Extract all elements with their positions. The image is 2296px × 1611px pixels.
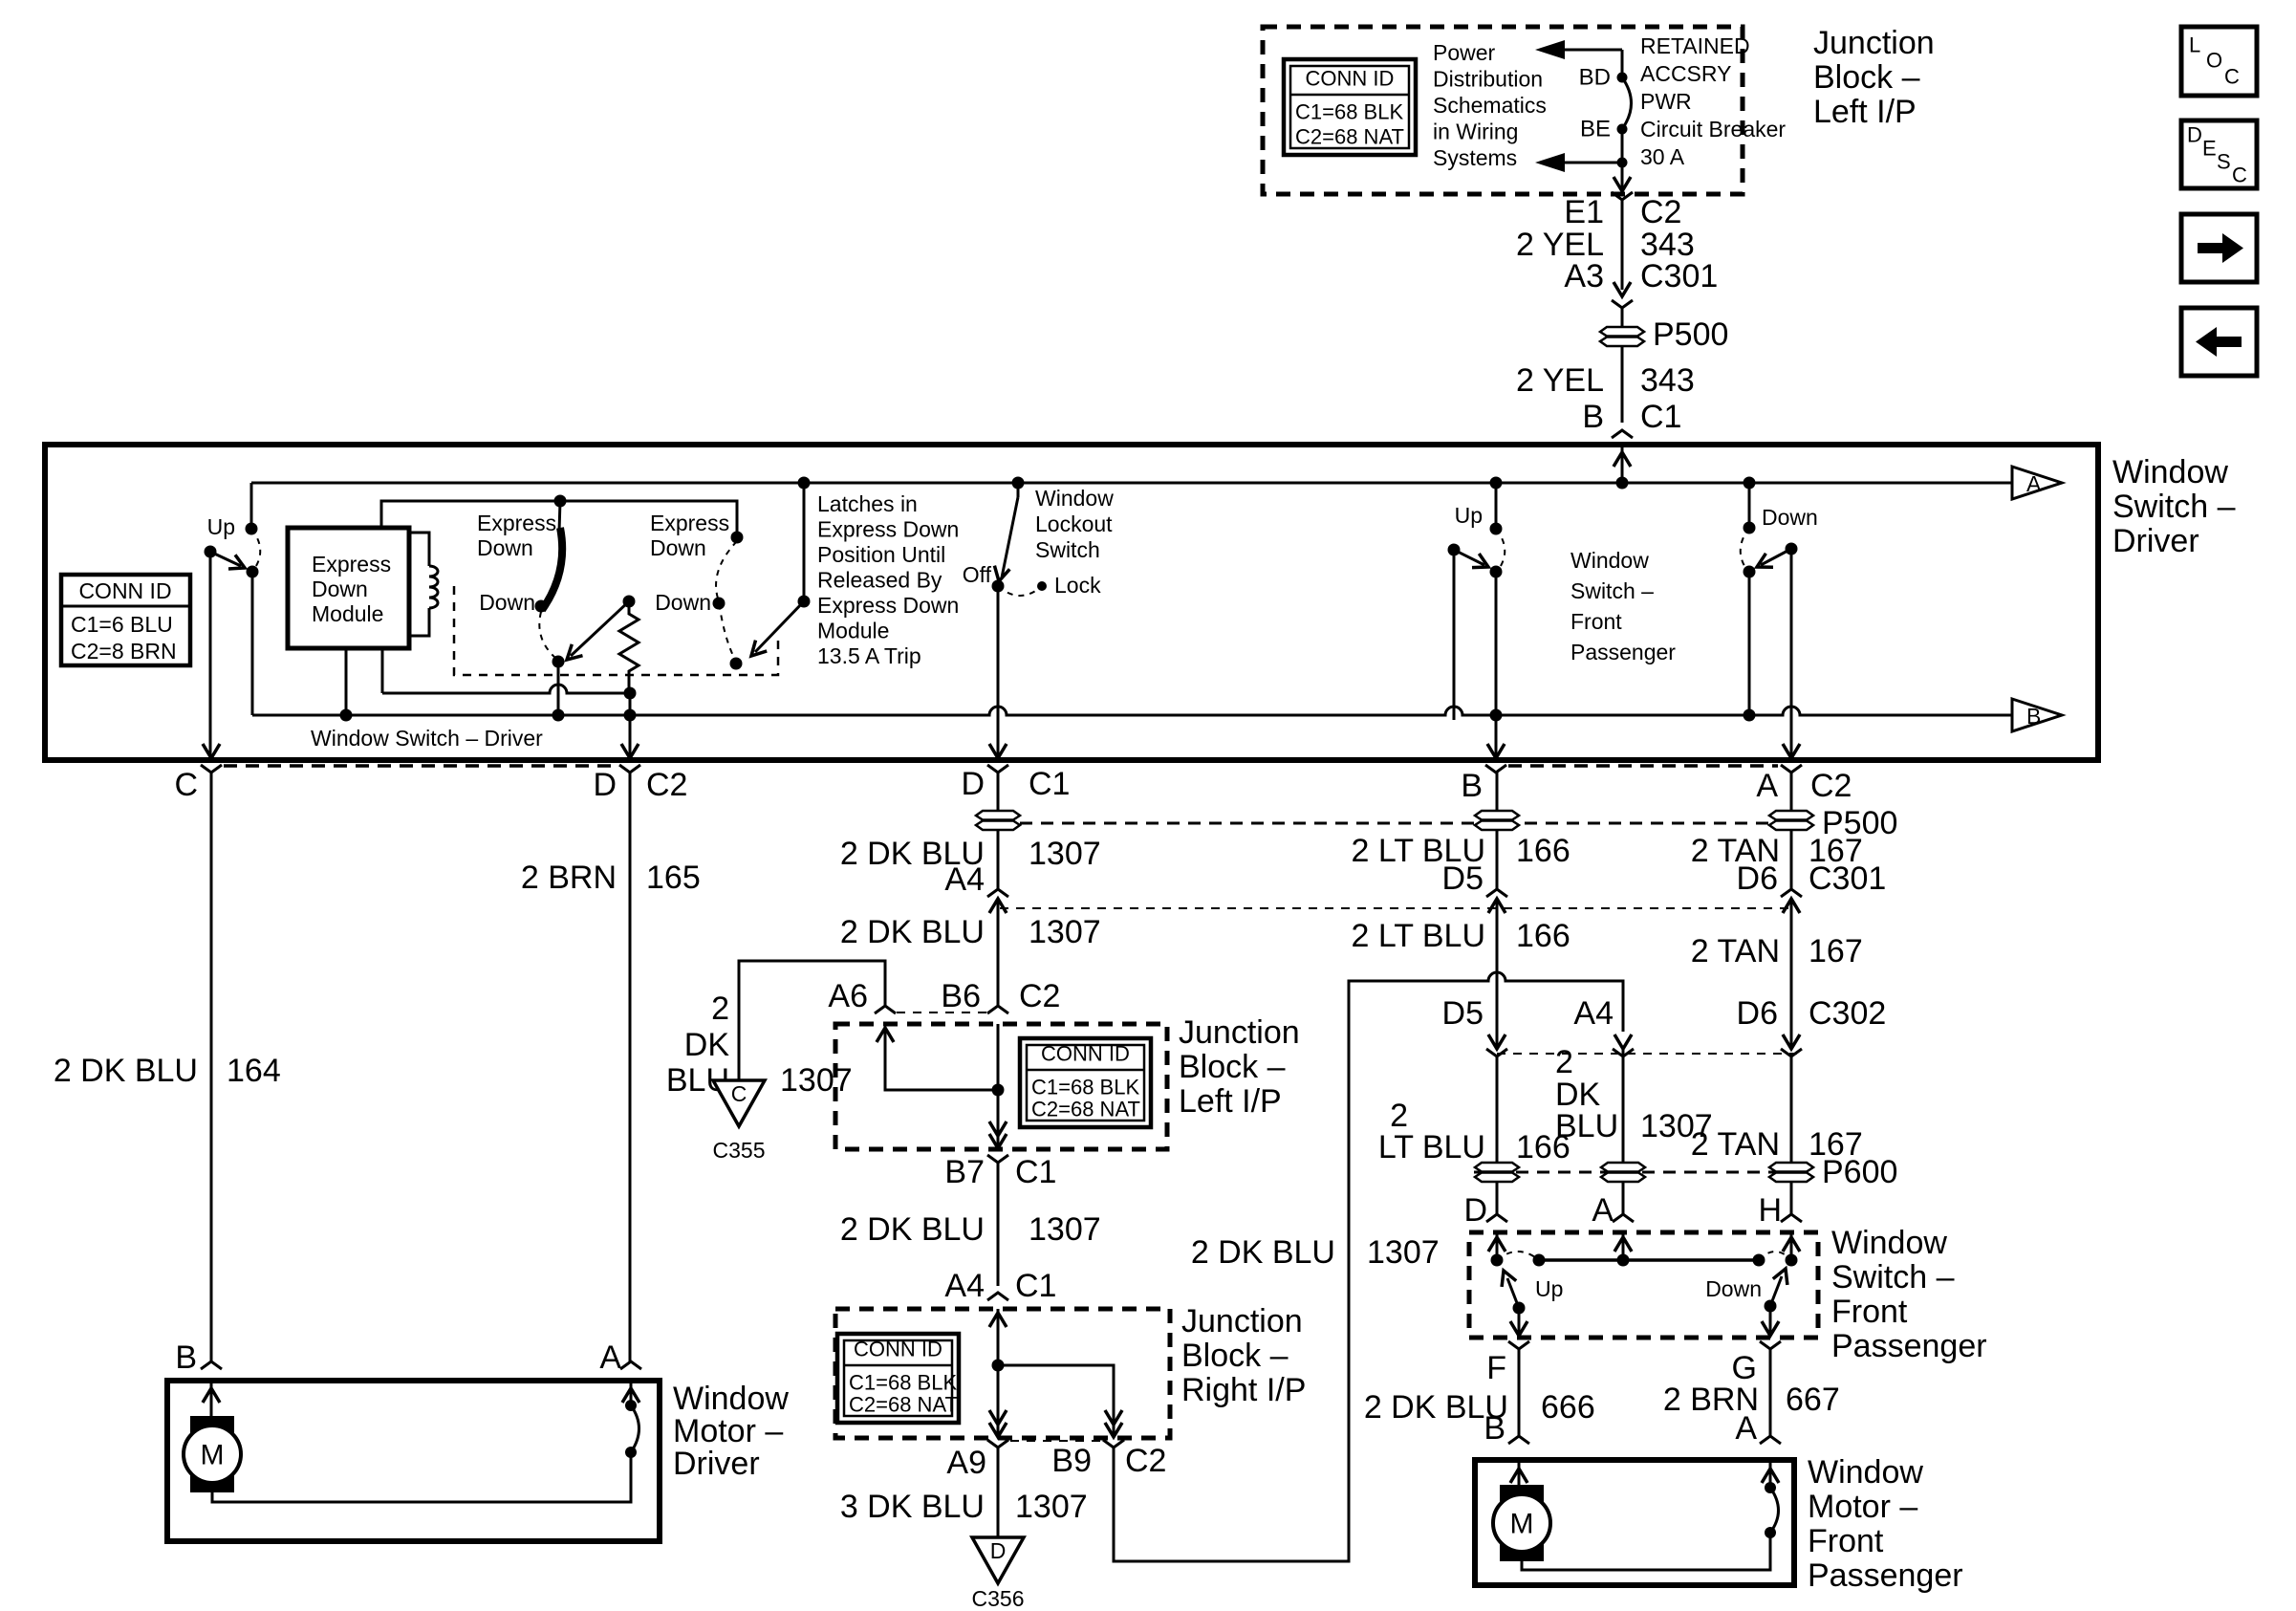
- wire to resistor bottom (with hop): [382, 685, 630, 693]
- svg-text:2 DK BLU: 2 DK BLU: [1191, 1234, 1335, 1271]
- connector P500 (circuit 167): [1769, 811, 1813, 830]
- svg-text:C301: C301: [1809, 860, 1886, 897]
- svg-text:A4: A4: [1573, 995, 1614, 1032]
- svg-text:Released By: Released By: [817, 568, 942, 593]
- svg-text:2: 2: [1555, 1044, 1573, 1080]
- node junction at 30A output: [1617, 158, 1628, 168]
- wire inside J3 (main): [997, 1309, 1000, 1434]
- svg-text:D5: D5: [1442, 995, 1484, 1032]
- svg-text:Junction: Junction: [1813, 25, 1935, 61]
- svg-text:CONN ID: CONN ID: [1041, 1042, 1130, 1066]
- component Express Down Module: [288, 528, 409, 648]
- resistor R1: [623, 596, 636, 608]
- wire latch feed from bus A to SW3 pivot: [803, 483, 806, 601]
- wire 166 to C301: [1496, 831, 1499, 889]
- wire 1307 J2 to J3: [997, 1163, 1000, 1286]
- svg-text:C301: C301: [1640, 258, 1718, 294]
- node bus dots: [798, 477, 811, 490]
- svg-text:C: C: [2232, 163, 2247, 187]
- svg-text:2 TAN: 2 TAN: [1691, 1126, 1780, 1163]
- svg-text:B: B: [1484, 1410, 1505, 1447]
- svg-text:Switch –: Switch –: [1831, 1259, 1955, 1295]
- svg-text:Express Down: Express Down: [817, 593, 959, 618]
- motor position contact (driver): [625, 1447, 637, 1458]
- svg-text:D: D: [1463, 1192, 1487, 1229]
- svg-text:A: A: [2026, 471, 2042, 496]
- junction block J2 - Left I/P (dashed box): [835, 1024, 1167, 1149]
- nav icon LOC: [2181, 27, 2257, 96]
- CONN ID table (J3): [837, 1334, 959, 1423]
- wire motor B entry (passenger): [1518, 1460, 1521, 1485]
- svg-text:B: B: [2026, 704, 2041, 729]
- svg-text:1307: 1307: [780, 1062, 853, 1099]
- wire 164 pin C to motor B: [210, 773, 213, 1361]
- svg-text:666: 666: [1541, 1389, 1595, 1426]
- wire SW6 contact to bus B: [1748, 572, 1751, 715]
- svg-text:2 YEL: 2 YEL: [1516, 362, 1604, 399]
- svg-text:Module: Module: [817, 619, 889, 643]
- svg-text:E1: E1: [1564, 194, 1604, 230]
- connector C301 pin A3 (arrow and chevron): [1614, 282, 1631, 296]
- wire 167 to C301: [1790, 831, 1793, 889]
- svg-text:C: C: [174, 767, 198, 803]
- svg-text:Front: Front: [1570, 609, 1622, 634]
- connector C355 (triangle): [713, 1080, 765, 1126]
- svg-text:Up: Up: [1535, 1276, 1563, 1301]
- contact Lock: [1037, 581, 1047, 591]
- svg-text:Window Switch – Driver: Window Switch – Driver: [311, 726, 543, 751]
- svg-text:Off: Off: [963, 562, 992, 587]
- wire 165 pin D to motor A: [629, 773, 632, 1361]
- svg-text:C1=68 BLK: C1=68 BLK: [849, 1371, 957, 1395]
- CONN ID table (J2): [1020, 1038, 1151, 1127]
- svg-text:A: A: [1756, 768, 1778, 804]
- pin A9 (below J3): [987, 1440, 1008, 1448]
- svg-text:P600: P600: [1822, 1154, 1897, 1190]
- wire 166 to P600: [1496, 1056, 1499, 1162]
- wire inside J2 (A6 leg): [885, 1028, 998, 1090]
- relay coil L1: [429, 566, 438, 608]
- wire SW1 lower contact to bus B: [251, 572, 254, 715]
- arm SW3: [755, 601, 804, 652]
- wire B C1 entry into bus: [1621, 447, 1624, 483]
- svg-text:2: 2: [711, 991, 729, 1027]
- latched arm (thick arc): [542, 528, 562, 610]
- branch wire 1307 to C355: [739, 961, 885, 1080]
- svg-text:S: S: [2217, 150, 2231, 174]
- nav icon forward arrow: [2181, 214, 2257, 282]
- wire pin H inside: [1790, 1234, 1793, 1260]
- wire module bottom to resistor line: [381, 648, 384, 693]
- wire 2 YEL 343 (lower): [1621, 347, 1624, 423]
- pin C (driver switch): [201, 765, 222, 773]
- wire SW6 pivot to pin A C2 (hops bus B): [1790, 549, 1793, 755]
- wire 666 to motor: [1518, 1349, 1521, 1436]
- svg-text:A4: A4: [944, 861, 985, 898]
- svg-text:LT BLU: LT BLU: [1378, 1129, 1485, 1165]
- arrow to power distribution bottom: [1535, 153, 1565, 172]
- svg-text:1307: 1307: [1367, 1234, 1440, 1271]
- svg-text:Down: Down: [479, 590, 535, 615]
- svg-text:166: 166: [1516, 833, 1570, 869]
- wire motor loop (driver): [212, 1452, 631, 1502]
- svg-text:P500: P500: [1653, 316, 1728, 353]
- svg-text:Window: Window: [1035, 486, 1114, 511]
- svg-text:Window: Window: [1831, 1225, 1947, 1261]
- pin B9 C2 (below J3): [1103, 1440, 1124, 1448]
- junction block J3 - Right I/P (dashed box): [835, 1309, 1170, 1438]
- svg-text:2 DK BLU: 2 DK BLU: [840, 1211, 985, 1248]
- svg-text:Circuit Breaker: Circuit Breaker: [1640, 117, 1786, 142]
- terminal A (output triangle): [2012, 467, 2062, 499]
- svg-text:Down: Down: [1705, 1276, 1762, 1301]
- svg-text:E: E: [2202, 137, 2217, 161]
- svg-text:Module: Module: [312, 601, 383, 626]
- swing arc lockout: [998, 586, 1042, 596]
- svg-text:Passenger: Passenger: [1570, 640, 1676, 664]
- svg-text:C2: C2: [1810, 768, 1852, 804]
- svg-text:165: 165: [646, 860, 701, 896]
- svg-text:A: A: [1592, 1192, 1614, 1229]
- svg-text:Down: Down: [477, 535, 533, 560]
- svg-text:A6: A6: [828, 978, 868, 1014]
- svg-text:Window: Window: [1808, 1454, 1923, 1491]
- svg-text:Window: Window: [673, 1381, 789, 1417]
- pin G (below passenger switch): [1760, 1341, 1781, 1349]
- svg-text:Junction: Junction: [1179, 1014, 1300, 1051]
- svg-text:Power: Power: [1433, 40, 1496, 65]
- pin B (passenger up): [1485, 765, 1506, 773]
- connector C1 pin B (chevron into switch): [1612, 430, 1633, 438]
- mechanical linkage (dashed): [454, 586, 778, 675]
- connector C356 (triangle): [972, 1537, 1024, 1583]
- bus A (top feed bus): [251, 482, 2012, 485]
- svg-text:D: D: [990, 1538, 1007, 1563]
- dashed link A6-B6: [897, 1012, 986, 1013]
- wire 1307 to C301: [997, 831, 1000, 889]
- svg-text:M: M: [1510, 1509, 1534, 1540]
- svg-text:1307: 1307: [1029, 1211, 1101, 1248]
- svg-text:Front: Front: [1831, 1294, 1908, 1330]
- svg-text:Block –: Block –: [1813, 59, 1920, 96]
- pin F (below passenger switch): [1508, 1341, 1529, 1349]
- wire H into passenger switch: [1790, 1183, 1793, 1214]
- wire 167 to P600: [1790, 1056, 1793, 1162]
- svg-text:1307: 1307: [1015, 1489, 1088, 1525]
- wire motor A entry: [630, 1381, 633, 1405]
- svg-text:F: F: [1486, 1350, 1506, 1386]
- svg-text:A: A: [1735, 1410, 1757, 1447]
- motor M2 front passenger: [1500, 1485, 1544, 1513]
- svg-text:C2=68 NAT: C2=68 NAT: [1295, 125, 1404, 149]
- wire 166 pin B to P500: [1496, 773, 1499, 810]
- svg-text:H: H: [1758, 1192, 1782, 1229]
- svg-text:L: L: [2189, 33, 2200, 57]
- svg-text:2 DK BLU: 2 DK BLU: [840, 914, 985, 950]
- svg-text:C2: C2: [1019, 978, 1060, 1014]
- svg-text:Switch –: Switch –: [2112, 489, 2236, 525]
- svg-text:Block –: Block –: [1179, 1049, 1286, 1085]
- svg-text:C2=68 NAT: C2=68 NAT: [1031, 1098, 1140, 1121]
- svg-text:167: 167: [1809, 933, 1863, 969]
- svg-text:164: 164: [227, 1053, 281, 1089]
- wire to power distribution (bottom): [1565, 162, 1622, 164]
- connector link dashed C-D: [224, 764, 617, 768]
- CONN ID table (driver switch): [61, 575, 190, 665]
- svg-text:C1: C1: [1029, 766, 1070, 802]
- svg-text:DK: DK: [684, 1027, 730, 1063]
- svg-text:C1=68 BLK: C1=68 BLK: [1295, 100, 1403, 124]
- svg-text:C356: C356: [972, 1586, 1025, 1611]
- svg-text:B: B: [1582, 399, 1604, 435]
- svg-text:Driver: Driver: [2112, 523, 2199, 559]
- svg-text:Switch: Switch: [1035, 537, 1100, 562]
- pin B6 C2 (junction block): [987, 1006, 1008, 1013]
- wire 1307 long run B9 to C302 A4: [1114, 972, 1623, 1561]
- wire 2 YEL 343 (upper): [1621, 200, 1624, 290]
- wire SW5 pivot stub (hops bus B): [1453, 550, 1456, 720]
- wire 667 to motor: [1769, 1349, 1772, 1436]
- motor position contact (passenger): [1765, 1527, 1776, 1538]
- svg-text:Switch –: Switch –: [1570, 578, 1654, 603]
- wire arm to pin G: [1769, 1306, 1772, 1335]
- motor M1 driver: [190, 1416, 234, 1445]
- svg-text:Distribution: Distribution: [1433, 67, 1543, 92]
- svg-text:B6: B6: [941, 978, 981, 1014]
- svg-text:C355: C355: [713, 1138, 766, 1163]
- bus B (bottom bus) with hops: [252, 707, 2012, 715]
- component box Window Switch - Driver: [45, 445, 2098, 760]
- svg-text:Express Down: Express Down: [817, 517, 959, 542]
- svg-text:Down: Down: [1762, 505, 1818, 530]
- svg-text:C1: C1: [1015, 1154, 1056, 1190]
- wire into P500: [1621, 308, 1624, 326]
- svg-text:3 DK BLU: 3 DK BLU: [840, 1489, 985, 1525]
- svg-text:B: B: [175, 1339, 197, 1376]
- wire SW1 pivot to pin C: [209, 552, 212, 755]
- arrow to power distribution top: [1535, 40, 1565, 59]
- arrow from resistor to SW2 contact: [571, 601, 629, 656]
- svg-text:BLU: BLU: [1555, 1108, 1618, 1144]
- svg-text:RETAINED: RETAINED: [1640, 33, 1750, 58]
- nav icon back arrow: [2181, 308, 2257, 376]
- svg-text:2 BRN: 2 BRN: [521, 860, 617, 896]
- svg-text:Front: Front: [1808, 1523, 1884, 1559]
- nav icon DESC: [2181, 120, 2257, 188]
- svg-text:CONN ID: CONN ID: [854, 1338, 942, 1361]
- swing arc SW2: [539, 612, 555, 658]
- svg-text:Block –: Block –: [1181, 1338, 1289, 1374]
- swing arc SW3: [716, 541, 737, 658]
- dashed connector row P600: [1474, 1171, 1809, 1174]
- svg-text:D: D: [961, 766, 985, 802]
- svg-text:166: 166: [1516, 918, 1570, 954]
- svg-text:Lock: Lock: [1054, 573, 1101, 598]
- wire module bottom pin to bus B: [345, 648, 348, 715]
- svg-text:Junction: Junction: [1181, 1303, 1303, 1339]
- node J3 junction: [992, 1360, 1005, 1372]
- connector C2 pin E1 (chevron): [1612, 192, 1633, 200]
- svg-text:C2=68 NAT: C2=68 NAT: [849, 1393, 958, 1417]
- wire to power distribution (top): [1565, 49, 1622, 52]
- wire D into passenger switch: [1496, 1183, 1499, 1214]
- svg-text:Window: Window: [2112, 454, 2228, 490]
- svg-text:D: D: [2187, 123, 2202, 147]
- component box Window Motor - Driver: [167, 1381, 660, 1541]
- svg-text:Left I/P: Left I/P: [1179, 1083, 1282, 1120]
- svg-text:A9: A9: [946, 1445, 986, 1481]
- svg-text:A: A: [599, 1339, 621, 1376]
- svg-text:343: 343: [1640, 362, 1695, 399]
- pin D C1 (lockout): [987, 765, 1008, 773]
- svg-text:C1: C1: [1015, 1268, 1056, 1304]
- swing arc (up contact): [1497, 1252, 1539, 1260]
- CONN ID table (top junction block): [1284, 59, 1416, 155]
- wire inside J3 (branch to B9): [998, 1365, 1114, 1434]
- svg-text:O: O: [2206, 49, 2222, 73]
- junction block J1 - Left I/P (dashed box): [1263, 27, 1743, 194]
- svg-text:Lockout: Lockout: [1035, 512, 1113, 536]
- svg-text:Systems: Systems: [1433, 145, 1517, 170]
- svg-text:Left I/P: Left I/P: [1813, 94, 1917, 130]
- svg-text:2 LT BLU: 2 LT BLU: [1352, 918, 1485, 954]
- svg-text:BD: BD: [1579, 65, 1611, 91]
- svg-text:CONN ID: CONN ID: [78, 578, 171, 603]
- connector P500 (circuit 166): [1475, 811, 1519, 830]
- svg-text:Down: Down: [650, 535, 706, 560]
- svg-text:Down: Down: [312, 577, 368, 601]
- svg-text:1307: 1307: [1029, 836, 1101, 872]
- svg-text:BE: BE: [1580, 117, 1611, 142]
- svg-text:CONN ID: CONN ID: [1306, 67, 1395, 91]
- svg-text:Driver: Driver: [673, 1446, 760, 1482]
- svg-text:C1=68 BLK: C1=68 BLK: [1031, 1076, 1139, 1099]
- svg-text:in Wiring: in Wiring: [1433, 120, 1518, 144]
- svg-text:Express: Express: [312, 552, 391, 577]
- wire bus2 (module to express switches): [381, 501, 737, 535]
- wire pin A inside: [1622, 1234, 1625, 1260]
- wire inside J2 (main): [997, 1024, 1000, 1145]
- wire pin D inside: [1496, 1234, 1499, 1260]
- svg-text:2 DK BLU: 2 DK BLU: [54, 1053, 198, 1089]
- node J2 junction: [992, 1084, 1005, 1097]
- svg-text:30 A: 30 A: [1640, 144, 1685, 169]
- svg-text:D6: D6: [1737, 860, 1778, 897]
- svg-text:Right I/P: Right I/P: [1181, 1372, 1306, 1408]
- svg-text:ACCSRY: ACCSRY: [1640, 61, 1731, 86]
- svg-text:1307: 1307: [1029, 914, 1101, 950]
- dashed link A9-B9: [1010, 1440, 1102, 1442]
- svg-text:Schematics: Schematics: [1433, 93, 1547, 118]
- wire A into passenger switch: [1622, 1183, 1625, 1214]
- component box Window Switch - Front Passenger (dashed): [1469, 1232, 1818, 1338]
- svg-text:C: C: [2224, 65, 2240, 89]
- svg-text:B7: B7: [944, 1154, 985, 1190]
- pin A C2 (passenger down): [1781, 765, 1802, 773]
- node bus B dots: [340, 709, 353, 722]
- svg-text:PWR: PWR: [1640, 89, 1692, 114]
- terminal B (output triangle): [2012, 699, 2062, 731]
- svg-text:A4: A4: [944, 1268, 985, 1304]
- circuit breaker 30A arc: [1622, 77, 1632, 129]
- svg-text:Position Until: Position Until: [817, 542, 945, 567]
- pin D C2 (driver switch): [619, 765, 640, 773]
- svg-text:13.5 A Trip: 13.5 A Trip: [817, 643, 921, 668]
- svg-text:Down: Down: [655, 590, 711, 615]
- wire motor loop (passenger): [1522, 1533, 1770, 1570]
- swing arc (down contact): [1759, 1252, 1791, 1260]
- svg-text:C2=8 BRN: C2=8 BRN: [71, 639, 177, 664]
- svg-text:2 TAN: 2 TAN: [1691, 933, 1780, 969]
- svg-text:Passenger: Passenger: [1831, 1328, 1987, 1364]
- wire resistor bottom to pin D C2: [629, 693, 632, 715]
- svg-text:C2: C2: [646, 767, 687, 803]
- dashed connector row P500: [1020, 822, 1809, 825]
- dashed connector row C301: [1000, 907, 1797, 909]
- connector P500 on circuit 1307: [976, 811, 1020, 830]
- wire Off contact to pin D C1 (passes bus B): [997, 586, 1000, 755]
- wire 167 pin A to P500: [1790, 773, 1793, 810]
- dashed connector row C302: [1497, 1053, 1797, 1055]
- wire 1307 to C356: [997, 1448, 1000, 1537]
- connector P500 (top): [1600, 327, 1644, 346]
- module connector tab: [409, 533, 429, 636]
- wire SW5 contact to bus B and pin B: [1495, 572, 1498, 715]
- svg-text:Express: Express: [477, 511, 556, 535]
- connector link dashed B-A: [1508, 764, 1778, 768]
- connector P600 (three symbols): [1475, 1163, 1519, 1182]
- pin A6 (junction block): [875, 1006, 896, 1013]
- wire exiting junction block down: [1621, 163, 1624, 188]
- rocker bar (passenger switch): [1539, 1258, 1759, 1262]
- svg-text:C302: C302: [1809, 995, 1886, 1032]
- wire motor B entry: [210, 1381, 213, 1416]
- svg-text:B9: B9: [1051, 1443, 1092, 1479]
- svg-text:Up: Up: [207, 514, 235, 539]
- wire arm to pin F: [1518, 1308, 1521, 1335]
- svg-text:A3: A3: [1564, 258, 1604, 294]
- pin B7 C1 (below J2): [987, 1155, 1008, 1163]
- svg-text:D: D: [593, 767, 617, 803]
- svg-text:C1=6 BLU: C1=6 BLU: [71, 612, 173, 637]
- svg-text:C2: C2: [1125, 1443, 1166, 1479]
- wire pin D C1 to P500: [997, 773, 1000, 810]
- svg-text:667: 667: [1786, 1382, 1840, 1418]
- wire BE to lower branch: [1621, 129, 1624, 163]
- wire SW2 lower contact to bus B (hops resistor line): [557, 662, 560, 712]
- svg-text:D5: D5: [1442, 860, 1484, 897]
- svg-text:Passenger: Passenger: [1808, 1557, 1963, 1594]
- svg-text:Window: Window: [1570, 548, 1649, 573]
- component box Window Motor - Front Passenger: [1475, 1460, 1794, 1585]
- svg-text:Express: Express: [650, 511, 729, 535]
- svg-text:Motor –: Motor –: [1808, 1489, 1917, 1525]
- svg-text:C1: C1: [1640, 399, 1681, 435]
- svg-text:Up: Up: [1455, 503, 1483, 528]
- wire motor A entry (passenger): [1769, 1460, 1772, 1488]
- svg-text:Motor –: Motor –: [673, 1413, 783, 1449]
- svg-text:D6: D6: [1737, 995, 1778, 1032]
- svg-text:B: B: [1461, 768, 1483, 804]
- svg-text:C2: C2: [1640, 194, 1681, 230]
- svg-text:M: M: [201, 1440, 225, 1471]
- svg-text:C: C: [731, 1081, 747, 1106]
- svg-text:Latches in: Latches in: [817, 491, 918, 516]
- wire A4 to P600: [1622, 1047, 1625, 1162]
